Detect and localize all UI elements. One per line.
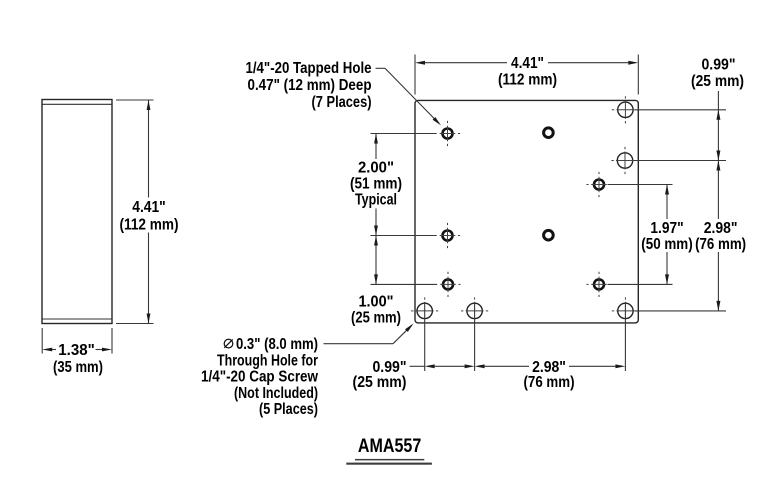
svg-text:1/4"-20 Tapped Hole: 1/4"-20 Tapped Hole — [246, 60, 372, 77]
svg-text:(112 mm): (112 mm) — [120, 217, 179, 234]
tapped hole leader line — [376, 67, 386, 69]
plate outline — [415, 100, 638, 323]
side view bottom face line — [42, 318, 112, 320]
through hole bottom-right — [618, 303, 633, 318]
through hole leader line — [324, 343, 394, 345]
svg-text:(76 mm): (76 mm) — [695, 236, 746, 253]
svg-text:1/4"-20 Cap Screw: 1/4"-20 Cap Screw — [201, 369, 318, 386]
svg-text:(35 mm): (35 mm) — [53, 359, 103, 376]
svg-text:0.99": 0.99" — [702, 57, 736, 74]
top width dim line 4.41 — [425, 62, 507, 64]
through hole note diameter symbol — [224, 339, 233, 348]
bottom holes vertical extension lines — [424, 302, 426, 371]
svg-text:2.00": 2.00" — [358, 160, 394, 177]
svg-text:Typical: Typical — [355, 192, 397, 209]
side view top face line — [42, 103, 112, 105]
svg-text:1.38": 1.38" — [58, 342, 95, 359]
svg-text:1.00": 1.00" — [359, 294, 394, 311]
right rows extension lines (outer column) — [635, 109, 727, 111]
title underline 1 — [355, 459, 424, 461]
side height dim extension lines — [116, 99, 154, 101]
tapped hole A5 — [443, 279, 453, 289]
svg-text:(5 Places): (5 Places) — [259, 401, 318, 418]
top width dim extension lines — [414, 55, 416, 95]
side view outline — [42, 100, 112, 324]
title underline 2 — [346, 463, 432, 465]
svg-text:(112 mm): (112 mm) — [498, 72, 557, 89]
svg-text:(51 mm): (51 mm) — [350, 176, 402, 193]
side height dim line 4.41 — [148, 100, 150, 198]
right dim line 0.99 — [717, 91, 719, 161]
through hole bottom-left — [417, 303, 432, 318]
side width dim line 1.38 — [52, 349, 56, 351]
tapped hole C3 — [594, 180, 604, 190]
bottom dim line 0.99 — [435, 365, 465, 367]
right dim line 1.97 — [666, 185, 668, 220]
left rows extension lines — [371, 133, 437, 135]
bottom dim line 2.98 — [485, 365, 529, 367]
side width dim extension lines — [41, 328, 43, 354]
through hole right row2 — [617, 153, 632, 168]
svg-text:(76 mm): (76 mm) — [524, 374, 575, 391]
svg-text:AMA557: AMA557 — [358, 435, 421, 457]
left dim line 1.00 — [375, 236, 377, 285]
tapped hole A4 — [443, 231, 453, 241]
right dim line 2.98 — [717, 161, 719, 220]
svg-text:1.97": 1.97" — [650, 220, 683, 237]
tapped hole C5 — [594, 279, 604, 289]
tapped hole B1 (plain) — [544, 128, 554, 138]
svg-text:0.3" (8.0 mm): 0.3" (8.0 mm) — [236, 336, 318, 353]
svg-text:4.41": 4.41" — [132, 199, 166, 216]
svg-text:Through Hole for: Through Hole for — [217, 352, 318, 369]
left dim line 2.00 — [375, 134, 377, 160]
svg-text:4.41": 4.41" — [511, 55, 544, 72]
svg-text:0.47" (12 mm) Deep: 0.47" (12 mm) Deep — [248, 77, 372, 94]
svg-text:(25 mm): (25 mm) — [353, 374, 407, 391]
svg-text:(25 mm): (25 mm) — [351, 310, 401, 327]
svg-text:(Not Included): (Not Included) — [234, 385, 318, 402]
through hole top-right — [618, 102, 633, 117]
svg-text:(7 Places): (7 Places) — [312, 94, 372, 111]
svg-text:(25 mm): (25 mm) — [691, 73, 744, 90]
through hole bottom-mid — [467, 303, 482, 318]
tapped hole B4 (plain) — [544, 230, 554, 240]
tapped hole A1 — [443, 129, 453, 139]
bottom dim line 0.99 leader — [410, 365, 425, 367]
right rows extension lines (C column) — [608, 184, 673, 186]
svg-text:(50 mm): (50 mm) — [641, 236, 692, 253]
svg-text:2.98": 2.98" — [704, 220, 738, 237]
